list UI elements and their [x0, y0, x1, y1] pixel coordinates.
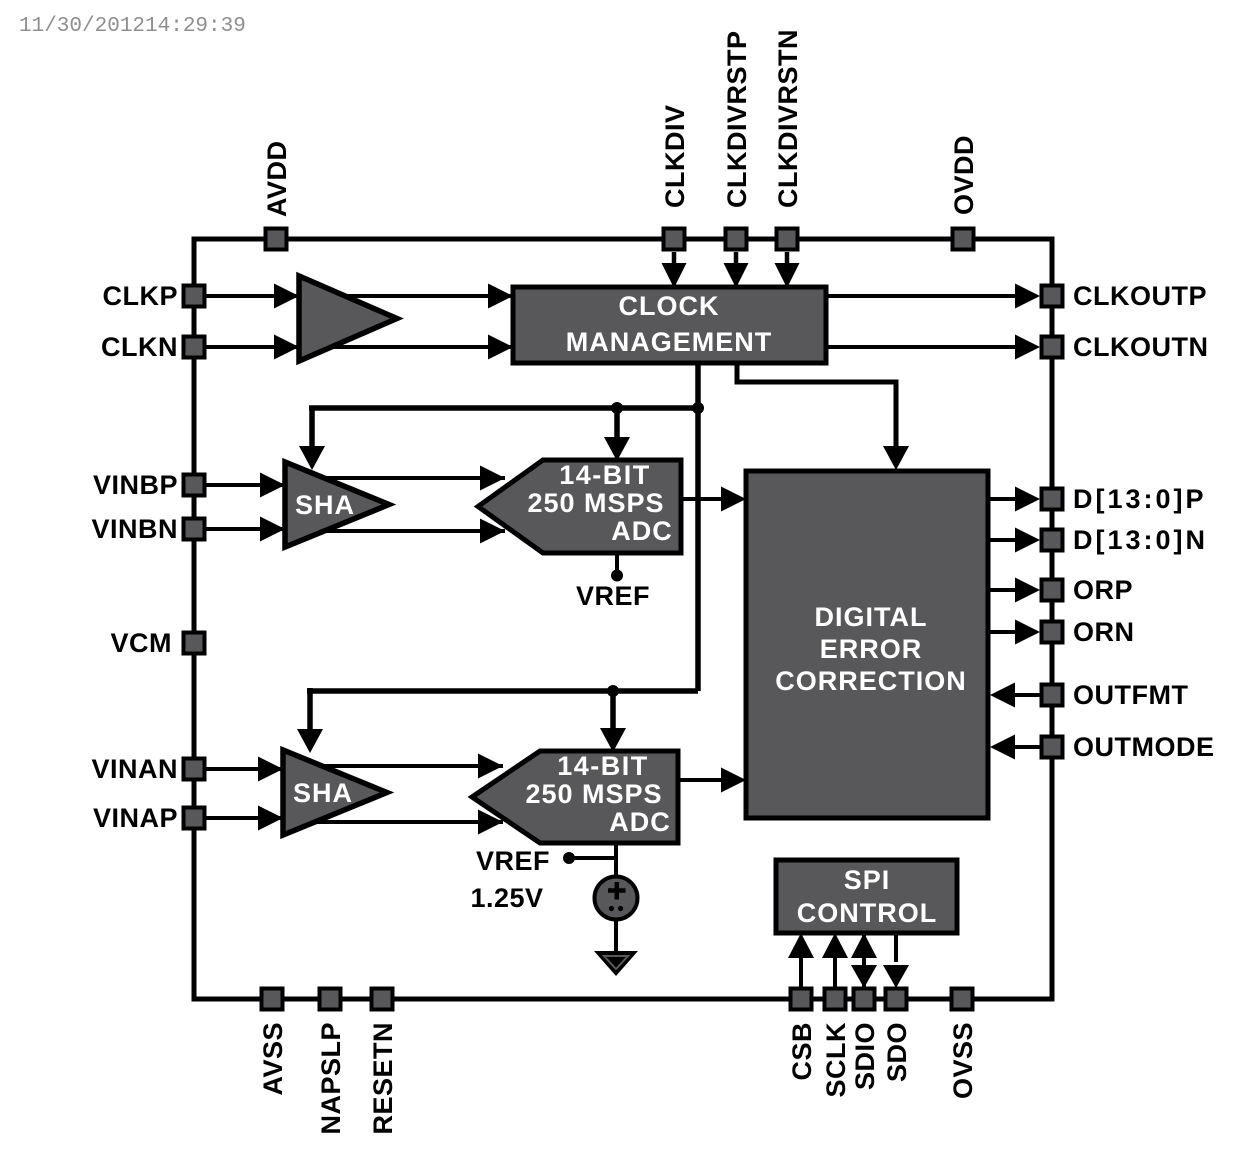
node VREF B dot [563, 852, 575, 864]
arrow clock into DEC [883, 446, 909, 470]
svg-text:OUTFMT: OUTFMT [1073, 680, 1188, 710]
arrow SHA B top into ADC B [478, 754, 503, 779]
wire CLKDIV to clock management [672, 252, 677, 265]
svg-text:CLOCK: CLOCK [619, 291, 720, 321]
svg-text:AVSS: AVSS [258, 1022, 288, 1096]
wire VINAP input [206, 816, 283, 820]
wire CSB [799, 955, 803, 987]
svg-text:ORN: ORN [1073, 617, 1135, 647]
pad CLKDIVRSTP [726, 229, 747, 250]
wire ORP [988, 588, 1016, 592]
svg-text:14-BIT: 14-BIT [559, 460, 651, 490]
wire SDO [894, 933, 898, 962]
wire OUTFMT [1012, 693, 1040, 697]
svg-text:ORP: ORP [1073, 575, 1133, 605]
wire SHA-B out bottom [306, 820, 503, 824]
svg-text:SPI: SPI [844, 865, 891, 895]
arrow clock into ADC B [600, 728, 626, 752]
block SPI CONTROL [776, 860, 957, 933]
svg-text:ERROR: ERROR [820, 634, 923, 664]
svg-text:RESETN: RESETN [368, 1022, 398, 1135]
wire CLKOUTN [826, 345, 1016, 349]
pad ORN [1042, 622, 1063, 643]
arrow SDIO to pad [851, 965, 877, 988]
wire clock drop to SHA-A [309, 406, 315, 449]
wire CLKP input [206, 294, 513, 298]
arrow SDIO into SPI [851, 933, 877, 958]
wire VREF B tap [569, 856, 616, 860]
wire clock drop to ADC-B [610, 691, 616, 731]
svg-text:VCM: VCM [111, 628, 173, 658]
wire ADC-B output to DEC [678, 778, 742, 782]
svg-text:CONTROL: CONTROL [797, 898, 937, 928]
pad CLKOUTN [1042, 337, 1063, 358]
voltage reference source 1.25V [595, 877, 638, 920]
block ADC A 14-BIT 250 MSPS [478, 460, 681, 553]
arrow CLKN into clock management [488, 335, 513, 360]
wire SHA-A out bottom [308, 529, 505, 533]
pad OUTFMT [1042, 685, 1063, 706]
svg-text:CLKOUTP: CLKOUTP [1073, 281, 1207, 311]
wire VINBN input [206, 527, 285, 531]
svg-text:SCLK: SCLK [821, 1022, 851, 1098]
op-amp SHA A [285, 462, 389, 547]
svg-text:SHA: SHA [293, 778, 353, 808]
wire clock horizontal upper [309, 405, 698, 411]
pad OUTMODE [1042, 737, 1063, 758]
arrow VINBP into SHA A [260, 473, 285, 498]
svg-text:CLKOUTN: CLKOUTN [1073, 332, 1208, 362]
arrow CLKDIVRSTN [775, 263, 800, 288]
arrow SCLK into SPI [822, 933, 848, 958]
svg-text:VINAN: VINAN [91, 754, 178, 784]
arrow SHA A top into ADC A [480, 466, 505, 491]
wire clock vertical from CLOCK MANAGEMENT [695, 363, 701, 691]
arrow D[13:0]N [1015, 528, 1040, 553]
svg-text:D[13:0]P: D[13:0]P [1073, 484, 1207, 514]
pad SDO [886, 989, 907, 1010]
pad NAPSLP [320, 989, 341, 1010]
node junction lower ADC branch [607, 685, 619, 697]
arrow VINBN into SHA A [260, 517, 285, 542]
svg-text:SHA: SHA [295, 490, 355, 520]
svg-text:AVDD: AVDD [262, 140, 292, 217]
arrow SDO to pad [883, 965, 909, 988]
arrow ADC B output into DEC [721, 768, 746, 793]
wire clock horizontal lower [307, 688, 698, 694]
arrow CLKN into buffer [274, 335, 299, 360]
svg-text:OUTMODE: OUTMODE [1073, 732, 1215, 762]
svg-text:SDIO: SDIO [850, 1022, 880, 1090]
svg-text:CLKN: CLKN [101, 332, 178, 362]
arrow ORP [1015, 578, 1040, 603]
pad VINAP [184, 808, 205, 829]
clock input buffer [299, 276, 397, 361]
wire CLKN input [206, 345, 513, 349]
wire CLKOUTP [826, 294, 1016, 298]
svg-text:VINBN: VINBN [91, 514, 178, 544]
arrow CLKP into clock management [488, 284, 513, 309]
block CLOCK MANAGEMENT [513, 287, 826, 363]
wire source to ground [614, 919, 618, 953]
wire VREF stub ADC-A [615, 553, 619, 572]
wire OUTMODE [1012, 745, 1040, 749]
arrow OUTFMT into DEC [990, 683, 1015, 708]
pad CSB [791, 989, 812, 1010]
wire SDIO [862, 933, 866, 988]
svg-text:SDO: SDO [882, 1022, 912, 1082]
svg-text:VREF: VREF [476, 846, 550, 876]
wire D[13:0]N [988, 538, 1016, 542]
wire clock drop to ADC-A [614, 408, 620, 440]
pad OVDD [953, 229, 974, 250]
pad CLKDIV [664, 229, 685, 250]
arrow CLKDIVRSTP [724, 263, 749, 288]
svg-text:ADC: ADC [611, 516, 673, 546]
wire D[13:0]P [988, 497, 1016, 501]
pad CLKP [184, 286, 205, 307]
arrow VINAN into SHA B [258, 757, 283, 782]
op-amp SHA B [283, 750, 387, 835]
wire CLKDIVRSTN to clock management [785, 252, 790, 265]
svg-text:250 MSPS: 250 MSPS [525, 779, 662, 809]
svg-text:VINBP: VINBP [93, 470, 178, 500]
svg-text:CLKDIVRSTP: CLKDIVRSTP [722, 30, 752, 208]
svg-text:14-BIT: 14-BIT [557, 751, 649, 781]
arrow ADC A output into DEC [721, 487, 746, 512]
node junction clock/upper horizontal [692, 402, 704, 414]
svg-text:OVDD: OVDD [949, 135, 979, 215]
pad RESETN [372, 989, 393, 1010]
svg-text:CLKDIV: CLKDIV [660, 105, 690, 209]
arrow CLKDIV [662, 263, 687, 288]
svg-text:CLKDIVRSTN: CLKDIVRSTN [773, 29, 803, 208]
arrow CLKOUTP [1015, 284, 1040, 309]
svg-text:OVSS: OVSS [948, 1022, 978, 1099]
svg-text:11/30/201214:29:39: 11/30/201214:29:39 [19, 15, 246, 38]
wire VINAN input [206, 767, 283, 771]
wire SHA-B out top [306, 764, 503, 768]
node VREF A dot [611, 570, 623, 582]
wire SCLK [833, 955, 837, 987]
arrow D[13:0]P [1015, 487, 1040, 512]
pad D[13:0]N [1042, 530, 1063, 551]
arrow clock into SHA A [299, 446, 325, 470]
pad SCLK [825, 989, 846, 1010]
wire ORN [988, 630, 1016, 634]
arrow SHA B bottom into ADC B [478, 810, 503, 835]
wire CLKDIVRSTP to clock management [734, 252, 739, 265]
pad SDIO [854, 989, 875, 1010]
svg-text:1.25V: 1.25V [470, 883, 543, 913]
pad VINBP [184, 475, 205, 496]
svg-text:CORRECTION: CORRECTION [775, 666, 967, 696]
wire SHA-A out top [308, 476, 505, 480]
svg-text:VREF: VREF [576, 581, 650, 611]
svg-text:CLKP: CLKP [103, 281, 179, 311]
pad VINAN [184, 759, 205, 780]
pad CLKDIVRSTN [777, 229, 798, 250]
pad AVSS [262, 989, 283, 1010]
pad AVDD [266, 229, 287, 250]
pad CLKN [184, 337, 205, 358]
arrow VINAP into SHA B [258, 806, 283, 831]
svg-text:250 MSPS: 250 MSPS [527, 488, 664, 518]
block DIGITAL ERROR CORRECTION [746, 471, 988, 818]
arrow CLKOUTN [1015, 335, 1040, 360]
chip outline [194, 239, 1052, 999]
wire clock to digital error correction [737, 363, 896, 448]
svg-text:NAPSLP: NAPSLP [316, 1022, 346, 1135]
arrow CSB into SPI [788, 933, 814, 958]
pad CLKOUTP [1042, 286, 1063, 307]
wire VINBP input [206, 483, 285, 487]
svg-text:DIGITAL: DIGITAL [815, 602, 928, 632]
wire ADC-A output to DEC [681, 497, 742, 501]
svg-text:D[13:0]N: D[13:0]N [1073, 525, 1208, 555]
svg-text:VINAP: VINAP [93, 803, 178, 833]
arrow CLKP into buffer [274, 284, 299, 309]
block ADC B 14-BIT 250 MSPS [472, 751, 678, 843]
arrow OUTMODE into DEC [990, 735, 1015, 760]
svg-text:MANAGEMENT: MANAGEMENT [566, 327, 773, 357]
node junction upper ADC branch [611, 402, 623, 414]
pad D[13:0]P [1042, 489, 1063, 510]
pad OVSS [952, 989, 973, 1010]
wire clock drop to SHA-B [307, 688, 313, 731]
svg-text:ADC: ADC [609, 807, 671, 837]
wire VREF stub ADC-B to source [614, 843, 618, 877]
svg-text:CSB: CSB [787, 1022, 817, 1081]
pad VINBN [184, 519, 205, 540]
ground [594, 951, 638, 976]
arrow clock into ADC A [604, 437, 630, 461]
arrow clock into SHA B [297, 729, 323, 753]
pad ORP [1042, 580, 1063, 601]
arrow SHA A bottom into ADC A [480, 519, 505, 544]
arrow ORN [1015, 620, 1040, 645]
pad VCM [184, 633, 205, 654]
